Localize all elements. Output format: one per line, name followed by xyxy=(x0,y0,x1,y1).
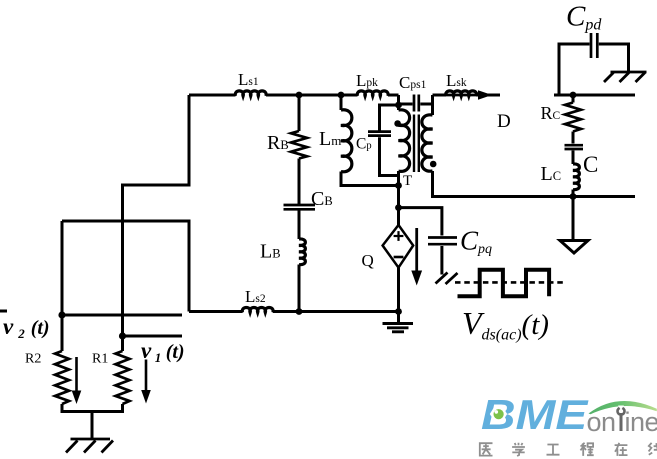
svg-text:v1(t): v1(t) xyxy=(141,338,185,365)
svg-text:LC: LC xyxy=(541,163,562,185)
svg-text:D: D xyxy=(497,111,511,132)
svg-text:R2: R2 xyxy=(25,352,41,367)
svg-text:Ls1: Ls1 xyxy=(238,70,259,89)
svg-text:Q: Q xyxy=(362,251,374,270)
svg-text:Cp: Cp xyxy=(356,136,372,153)
svg-text:Lsk: Lsk xyxy=(446,71,467,90)
svg-text:T: T xyxy=(403,173,412,189)
svg-text:RB: RB xyxy=(267,132,289,154)
svg-text:R1: R1 xyxy=(92,352,108,367)
svg-text:Lm: Lm xyxy=(319,128,341,150)
svg-text:on: on xyxy=(587,407,616,437)
svg-text:v2(t): v2(t) xyxy=(3,314,50,341)
svg-text:Lpk: Lpk xyxy=(356,71,378,90)
svg-text:Vds(ac)(t): Vds(ac)(t) xyxy=(462,305,549,344)
svg-text:CB: CB xyxy=(311,188,333,210)
svg-text:LB: LB xyxy=(260,241,281,263)
svg-text:Cpq: Cpq xyxy=(460,226,492,258)
svg-text:Cpd: Cpd xyxy=(566,1,602,34)
svg-text:Cps1: Cps1 xyxy=(399,73,427,92)
svg-text:ine: ine xyxy=(625,407,657,437)
svg-text:RC: RC xyxy=(541,103,561,123)
svg-text:Ls2: Ls2 xyxy=(245,287,266,306)
svg-text:C: C xyxy=(583,152,598,177)
